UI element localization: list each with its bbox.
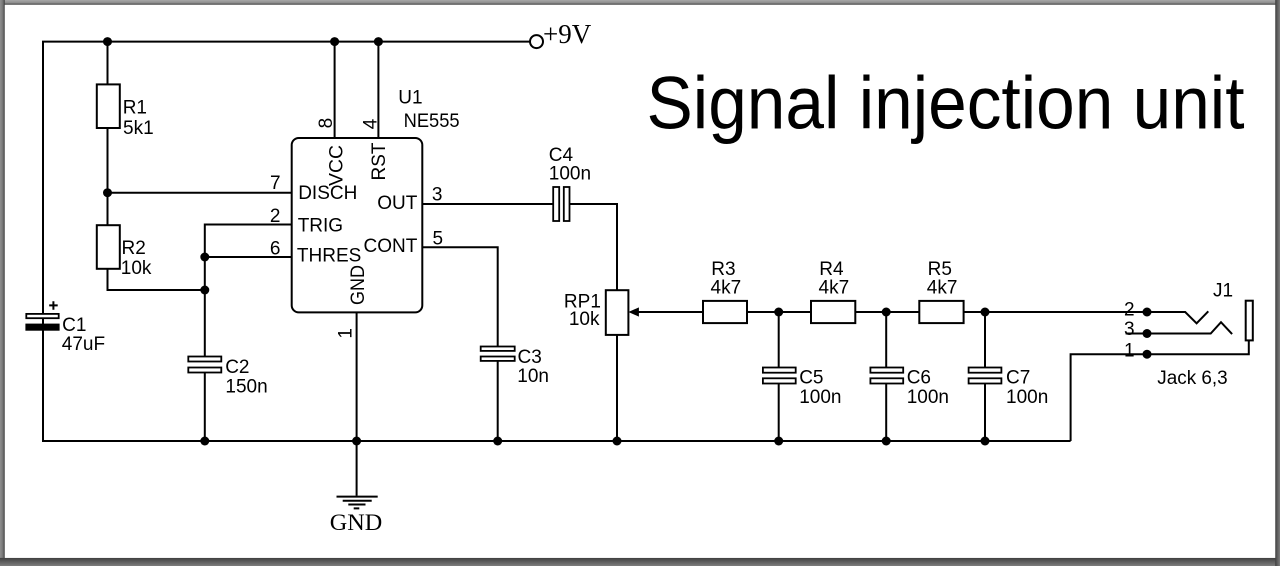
svg-text:100n: 100n xyxy=(799,387,841,408)
svg-text:4k7: 4k7 xyxy=(819,277,850,298)
svg-text:5: 5 xyxy=(433,228,444,249)
svg-text:NE555: NE555 xyxy=(404,111,460,132)
svg-text:GND: GND xyxy=(330,510,383,536)
svg-text:OUT: OUT xyxy=(377,193,418,214)
svg-text:C3: C3 xyxy=(518,347,542,368)
svg-text:3: 3 xyxy=(432,185,443,206)
svg-text:+9V: +9V xyxy=(543,19,592,49)
svg-text:2: 2 xyxy=(1124,299,1135,320)
svg-text:J1: J1 xyxy=(1213,281,1233,302)
svg-text:2: 2 xyxy=(270,206,281,227)
svg-text:100n: 100n xyxy=(907,387,949,408)
svg-text:R1: R1 xyxy=(123,98,147,119)
svg-text:8: 8 xyxy=(316,118,337,129)
svg-text:100n: 100n xyxy=(549,164,591,185)
svg-text:C1: C1 xyxy=(62,315,86,336)
svg-text:1: 1 xyxy=(336,328,357,339)
svg-text:C5: C5 xyxy=(799,367,823,388)
svg-text:C2: C2 xyxy=(225,357,249,378)
svg-text:10k: 10k xyxy=(121,258,152,279)
svg-text:Jack 6,3: Jack 6,3 xyxy=(1157,368,1227,389)
svg-text:C6: C6 xyxy=(907,367,931,388)
svg-text:Signal injection unit: Signal injection unit xyxy=(647,62,1245,145)
svg-text:R2: R2 xyxy=(122,238,146,259)
svg-text:RST: RST xyxy=(369,142,390,180)
svg-text:10k: 10k xyxy=(569,309,600,330)
svg-text:5k1: 5k1 xyxy=(123,118,154,139)
svg-text:GND: GND xyxy=(348,265,369,305)
svg-text:THRES: THRES xyxy=(297,246,361,267)
svg-text:150n: 150n xyxy=(225,377,267,398)
svg-text:1: 1 xyxy=(1124,340,1135,361)
svg-text:C4: C4 xyxy=(549,145,574,166)
svg-text:47uF: 47uF xyxy=(62,334,105,355)
svg-text:TRIG: TRIG xyxy=(298,216,343,237)
svg-text:4: 4 xyxy=(360,118,381,129)
svg-text:U1: U1 xyxy=(398,87,422,108)
svg-text:4k7: 4k7 xyxy=(927,277,958,298)
svg-text:4k7: 4k7 xyxy=(711,277,742,298)
svg-text:100n: 100n xyxy=(1006,387,1048,408)
svg-text:C7: C7 xyxy=(1006,367,1030,388)
svg-text:VCC: VCC xyxy=(327,145,348,186)
svg-text:7: 7 xyxy=(270,173,281,194)
svg-text:CONT: CONT xyxy=(363,236,417,257)
svg-text:6: 6 xyxy=(270,239,281,260)
svg-text:3: 3 xyxy=(1124,319,1135,340)
svg-text:10n: 10n xyxy=(517,366,549,387)
